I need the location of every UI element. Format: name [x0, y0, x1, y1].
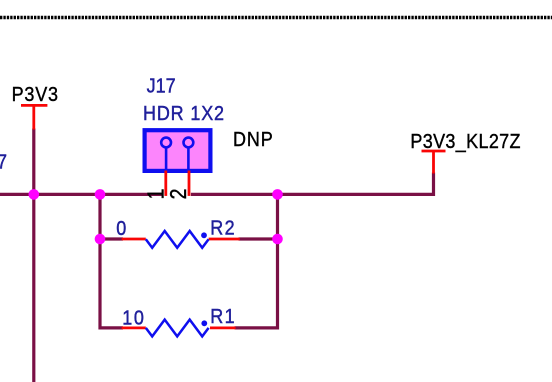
- svg-text:HDR 1X2: HDR 1X2: [143, 102, 225, 125]
- resistor R1 zigzag body: [146, 320, 209, 337]
- wire R2 row left stub: [100, 237, 123, 240]
- wire left branch vertical with corner to R1 row: [100, 194, 123, 328]
- junction dot at right branch / main wire: [272, 189, 283, 200]
- power symbol P3V3_KL27Z (red bar and pin, right): [422, 151, 446, 174]
- svg-text:7: 7: [0, 150, 7, 173]
- junction dot at right branch / R2 row: [272, 234, 283, 245]
- connector J17 pin 2 red wire: [188, 171, 191, 196]
- junction dot at P3V3 / main wire: [29, 189, 40, 200]
- wire main net left segment (P3V3): [0, 193, 163, 196]
- power symbol P3V3 (red bar and pin, left): [21, 105, 47, 130]
- svg-text:10: 10: [122, 306, 145, 329]
- connector J17 pin 2 circle: [184, 138, 194, 148]
- connector J17 pin 2 stub inside body: [187, 147, 190, 171]
- resistor R2 zigzag body: [146, 231, 209, 248]
- svg-text:R1: R1: [210, 305, 236, 328]
- junction dot at left branch / R2 row: [95, 234, 106, 245]
- connector J17 body HDR 1X2: [145, 130, 211, 171]
- title block dotted border line: [0, 16, 552, 20]
- connector J17 pin 1 red wire: [164, 171, 167, 196]
- svg-text:R2: R2: [210, 216, 236, 239]
- svg-text:2: 2: [166, 189, 192, 200]
- wire right branch vertical with corner to R1 row: [235, 194, 278, 328]
- wire vertical from P3V3 power down past main wire to bottom edge: [32, 129, 35, 382]
- svg-text:P3V3: P3V3: [12, 83, 59, 106]
- resistor R1 red pin leads: [122, 326, 236, 329]
- svg-text:0: 0: [116, 217, 126, 240]
- resistor R2 red pin leads: [122, 238, 240, 241]
- wire main net right segment (P3V3_KL27Z) with corner up to power pin: [191, 173, 434, 195]
- svg-text:P3V3_KL27Z: P3V3_KL27Z: [410, 130, 520, 153]
- resistor R2 pin-1 indicator dot: [201, 232, 207, 238]
- connector J17 pin 1 stub inside body: [165, 147, 168, 171]
- connector J17 pin 1 circle: [161, 138, 171, 148]
- wire R2 row right stub: [239, 237, 278, 240]
- junction dot at left branch / main wire: [95, 189, 106, 200]
- resistor R1 pin-1 indicator dot: [201, 320, 207, 326]
- svg-text:J17: J17: [147, 75, 176, 98]
- svg-text:DNP: DNP: [233, 128, 274, 151]
